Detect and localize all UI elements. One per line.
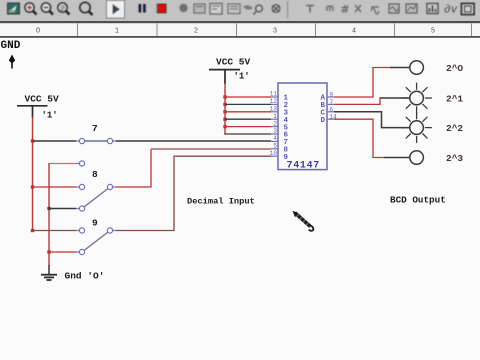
junction rail A / switch 9 <box>31 229 34 232</box>
toolbar icon: component3 <box>272 5 280 13</box>
toolbar icon: zoom-page magnifier <box>58 3 70 15</box>
svg-text:8: 8 <box>92 169 98 180</box>
toolbar icon: component2 <box>254 5 263 14</box>
toolbar button: run (pressed) <box>107 1 125 19</box>
wire switch 8 pole to IC pin 5 (pole segment) <box>116 149 151 187</box>
wire lamp 2^0 stub <box>390 67 410 69</box>
wire IC output D to lamp 2^3 <box>334 119 385 157</box>
svg-text:5: 5 <box>273 143 277 150</box>
svg-text:'1': '1' <box>234 72 250 82</box>
IC U1 right pin numbers <box>330 92 338 121</box>
toolbar icon: bode <box>406 4 417 13</box>
wire IC output A to lamp 2^0 <box>334 68 391 98</box>
junction rail B / switch 8 bottom <box>47 207 50 210</box>
toolbar icon: pause <box>139 4 146 13</box>
IC U1 74147 body <box>278 83 327 170</box>
svg-text:2^3: 2^3 <box>446 153 463 164</box>
wire rail A (VCC1 down) <box>32 117 34 231</box>
svg-text:2: 2 <box>194 28 198 36</box>
wire VCC2 to IC input 3 <box>225 111 271 113</box>
svg-text:Decimal Input: Decimal Input <box>187 197 255 207</box>
IC U1 right pin stubs <box>327 97 334 119</box>
svg-text:BCD Output: BCD Output <box>390 195 446 206</box>
wire rail B (ground rail) <box>48 164 50 253</box>
svg-text:5: 5 <box>431 28 435 36</box>
toolbar icon: window3 <box>228 4 240 14</box>
wire VCC2 to IC input 6 <box>225 132 271 135</box>
svg-text:2: 2 <box>273 120 277 127</box>
toolbar icon: bordered square <box>462 4 475 15</box>
svg-text:7: 7 <box>330 99 334 106</box>
toolbar icon: meter m <box>327 6 333 11</box>
wire VCC2 stem <box>224 83 226 134</box>
svg-text:10: 10 <box>270 150 278 157</box>
svg-text:7: 7 <box>92 123 98 134</box>
toolbar icon: window2 <box>210 4 222 15</box>
wire IC output C to lamp 2^2 <box>334 112 410 128</box>
svg-text:12: 12 <box>270 98 278 105</box>
toolbar separator <box>287 1 288 18</box>
ruler <box>0 21 480 38</box>
junction VCC2 / pin1 <box>223 118 226 121</box>
svg-text:D: D <box>321 117 326 125</box>
switch 7 (closed, up position) <box>76 138 116 166</box>
svg-text:3: 3 <box>273 128 277 135</box>
wire rail B to switch 9 bottom throw <box>49 251 76 253</box>
svg-text:4: 4 <box>273 135 277 142</box>
junction VCC2 / pin13 <box>223 110 226 113</box>
toolbar icon: zoom-out magnifier <box>41 3 53 15</box>
svg-text:Gnd 'O': Gnd 'O' <box>65 271 105 282</box>
junction VCC2 / pin11 <box>223 95 226 98</box>
svg-text:VCC 5V: VCC 5V <box>216 57 251 68</box>
wire VCC1 to switch 8 top throw <box>33 186 76 188</box>
wire rail B to switch 8 bottom throw <box>49 208 76 210</box>
lamp 2^1 (lit) <box>401 83 432 114</box>
wire VCC2 to IC input 5 <box>225 126 271 128</box>
svg-text:GND: GND <box>1 40 21 52</box>
lamp 2^2 (lit) <box>401 112 432 143</box>
wire lamp 2^1 stub <box>379 97 410 99</box>
pen cursor <box>293 211 314 231</box>
toolbar icon: stop (red) <box>156 4 167 14</box>
wire VCC2 to IC input 1 <box>225 96 271 98</box>
wire VCC2 to IC input 4 <box>225 118 271 120</box>
wire IC output B to lamp 2^1 <box>334 99 380 105</box>
wire switch 8 riser to IC pin 5 <box>151 148 271 150</box>
toolbar icon: wave <box>371 7 379 14</box>
toolbar icon: hash <box>341 5 349 13</box>
toolbar icon: dB chart <box>427 4 438 14</box>
svg-text:O: O <box>36 28 40 36</box>
svg-text:13: 13 <box>270 106 278 113</box>
node GND arrow <box>9 55 15 69</box>
switch 9 (down position) <box>76 228 116 255</box>
wire VCC1 to switch 7 top throw <box>33 140 76 142</box>
toolbar icon: probe T <box>306 6 314 13</box>
toolbar icon: zoom-select magnifier <box>80 2 93 15</box>
svg-text:9: 9 <box>330 92 334 99</box>
svg-text:∂v: ∂v <box>444 5 458 17</box>
wire switch 7 pole to IC pin 4 <box>116 140 271 142</box>
IC U1 input name labels 1-9 <box>284 95 289 162</box>
lamp 2^3 (off) <box>410 151 424 165</box>
power VCC2 symbol <box>209 70 240 84</box>
toolbar icon: grey dot <box>179 4 187 12</box>
svg-text:74147: 74147 <box>287 161 321 172</box>
wire lamp 2^3 stub <box>384 157 410 159</box>
toolbar icon: zoom-in magnifier <box>25 3 37 15</box>
svg-text:3: 3 <box>273 28 277 36</box>
switch 8 (down position) <box>76 184 116 211</box>
IC U1 left pin numbers <box>270 91 278 157</box>
toolbar background <box>0 0 480 21</box>
junction VCC2 / pin2 <box>223 125 226 128</box>
svg-text:2^O: 2^O <box>446 63 463 74</box>
IC U1 output name labels A-D <box>321 95 326 125</box>
svg-text:2^2: 2^2 <box>446 123 463 134</box>
IC U1 left pin stubs <box>271 97 278 156</box>
toolbar icon: component1 <box>243 5 253 10</box>
ground symbol <box>41 252 57 280</box>
svg-text:1: 1 <box>273 113 277 120</box>
svg-text:'1': '1' <box>42 111 58 121</box>
wire switch 9 pole to IC pin 10 <box>116 156 271 230</box>
svg-text:VCC 5V: VCC 5V <box>25 94 60 105</box>
junction VCC2 / pin12 <box>223 103 226 106</box>
toolbar icon: open-sheet (green) <box>8 3 20 14</box>
junction rail A / switch 8 <box>31 185 34 188</box>
lamp 2^0 (off) <box>410 61 424 75</box>
svg-text:9: 9 <box>92 218 98 229</box>
wire VCC1 to switch 9 top throw <box>33 230 76 232</box>
svg-text:1: 1 <box>115 28 119 36</box>
wire VCC2 to IC input 2 <box>225 103 271 105</box>
junction rail A / switch 7 <box>31 139 34 142</box>
power VCC1 symbol <box>17 106 48 118</box>
junction rail B / switch 9 bottom <box>47 250 50 253</box>
svg-text:11: 11 <box>270 91 278 98</box>
toolbar icon: cross <box>355 5 361 12</box>
svg-text:4: 4 <box>352 28 356 36</box>
toolbar icon: scope <box>389 4 399 13</box>
svg-text:2^1: 2^1 <box>446 94 463 105</box>
svg-text:6: 6 <box>330 106 334 113</box>
toolbar icon: window1 <box>194 4 205 13</box>
wire rail B corner to switch 7 bottom throw <box>49 164 76 166</box>
